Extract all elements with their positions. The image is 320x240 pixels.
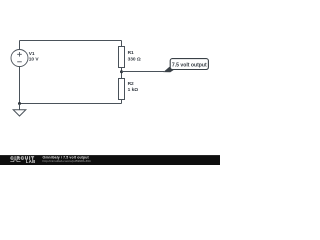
voltage source V1 <box>11 50 28 67</box>
named node flag 7.5 volt output <box>170 59 208 70</box>
svg-text:10 V: 10 V <box>29 57 40 63</box>
svg-text:R1: R1 <box>128 50 134 56</box>
node junction output tap <box>120 70 123 73</box>
wire top horizontal from V1 to R1 <box>20 40 122 42</box>
node junction at ground <box>18 102 21 105</box>
resistor R2 <box>119 79 125 100</box>
svg-text:330 Ω: 330 Ω <box>128 56 141 62</box>
wire bottom horizontal from ground node to R2 <box>20 103 122 105</box>
wire R1 bottom to node <box>121 68 123 79</box>
wire R2 bottom stub <box>121 100 123 104</box>
svg-text:1 kΩ: 1 kΩ <box>128 87 139 93</box>
svg-text:V1: V1 <box>29 51 35 57</box>
wire output tap horizontal <box>122 71 165 73</box>
wire V1 bottom to ground node <box>19 67 21 104</box>
node flag pointer <box>163 67 178 72</box>
svg-text:LAB: LAB <box>26 159 36 164</box>
wire V1 top stub <box>19 41 21 50</box>
ground <box>13 104 26 117</box>
wire R1 top stub <box>121 41 123 47</box>
footer logo waveform <box>10 160 20 162</box>
resistor R1 <box>119 47 125 68</box>
svg-text:R2: R2 <box>128 81 134 87</box>
footer bar <box>0 155 220 165</box>
svg-text:http://circuitlab.com/c/pd5998: http://circuitlab.com/c/pd5998b-364 <box>43 159 91 163</box>
svg-text:7.5 volt output: 7.5 volt output <box>172 62 207 68</box>
